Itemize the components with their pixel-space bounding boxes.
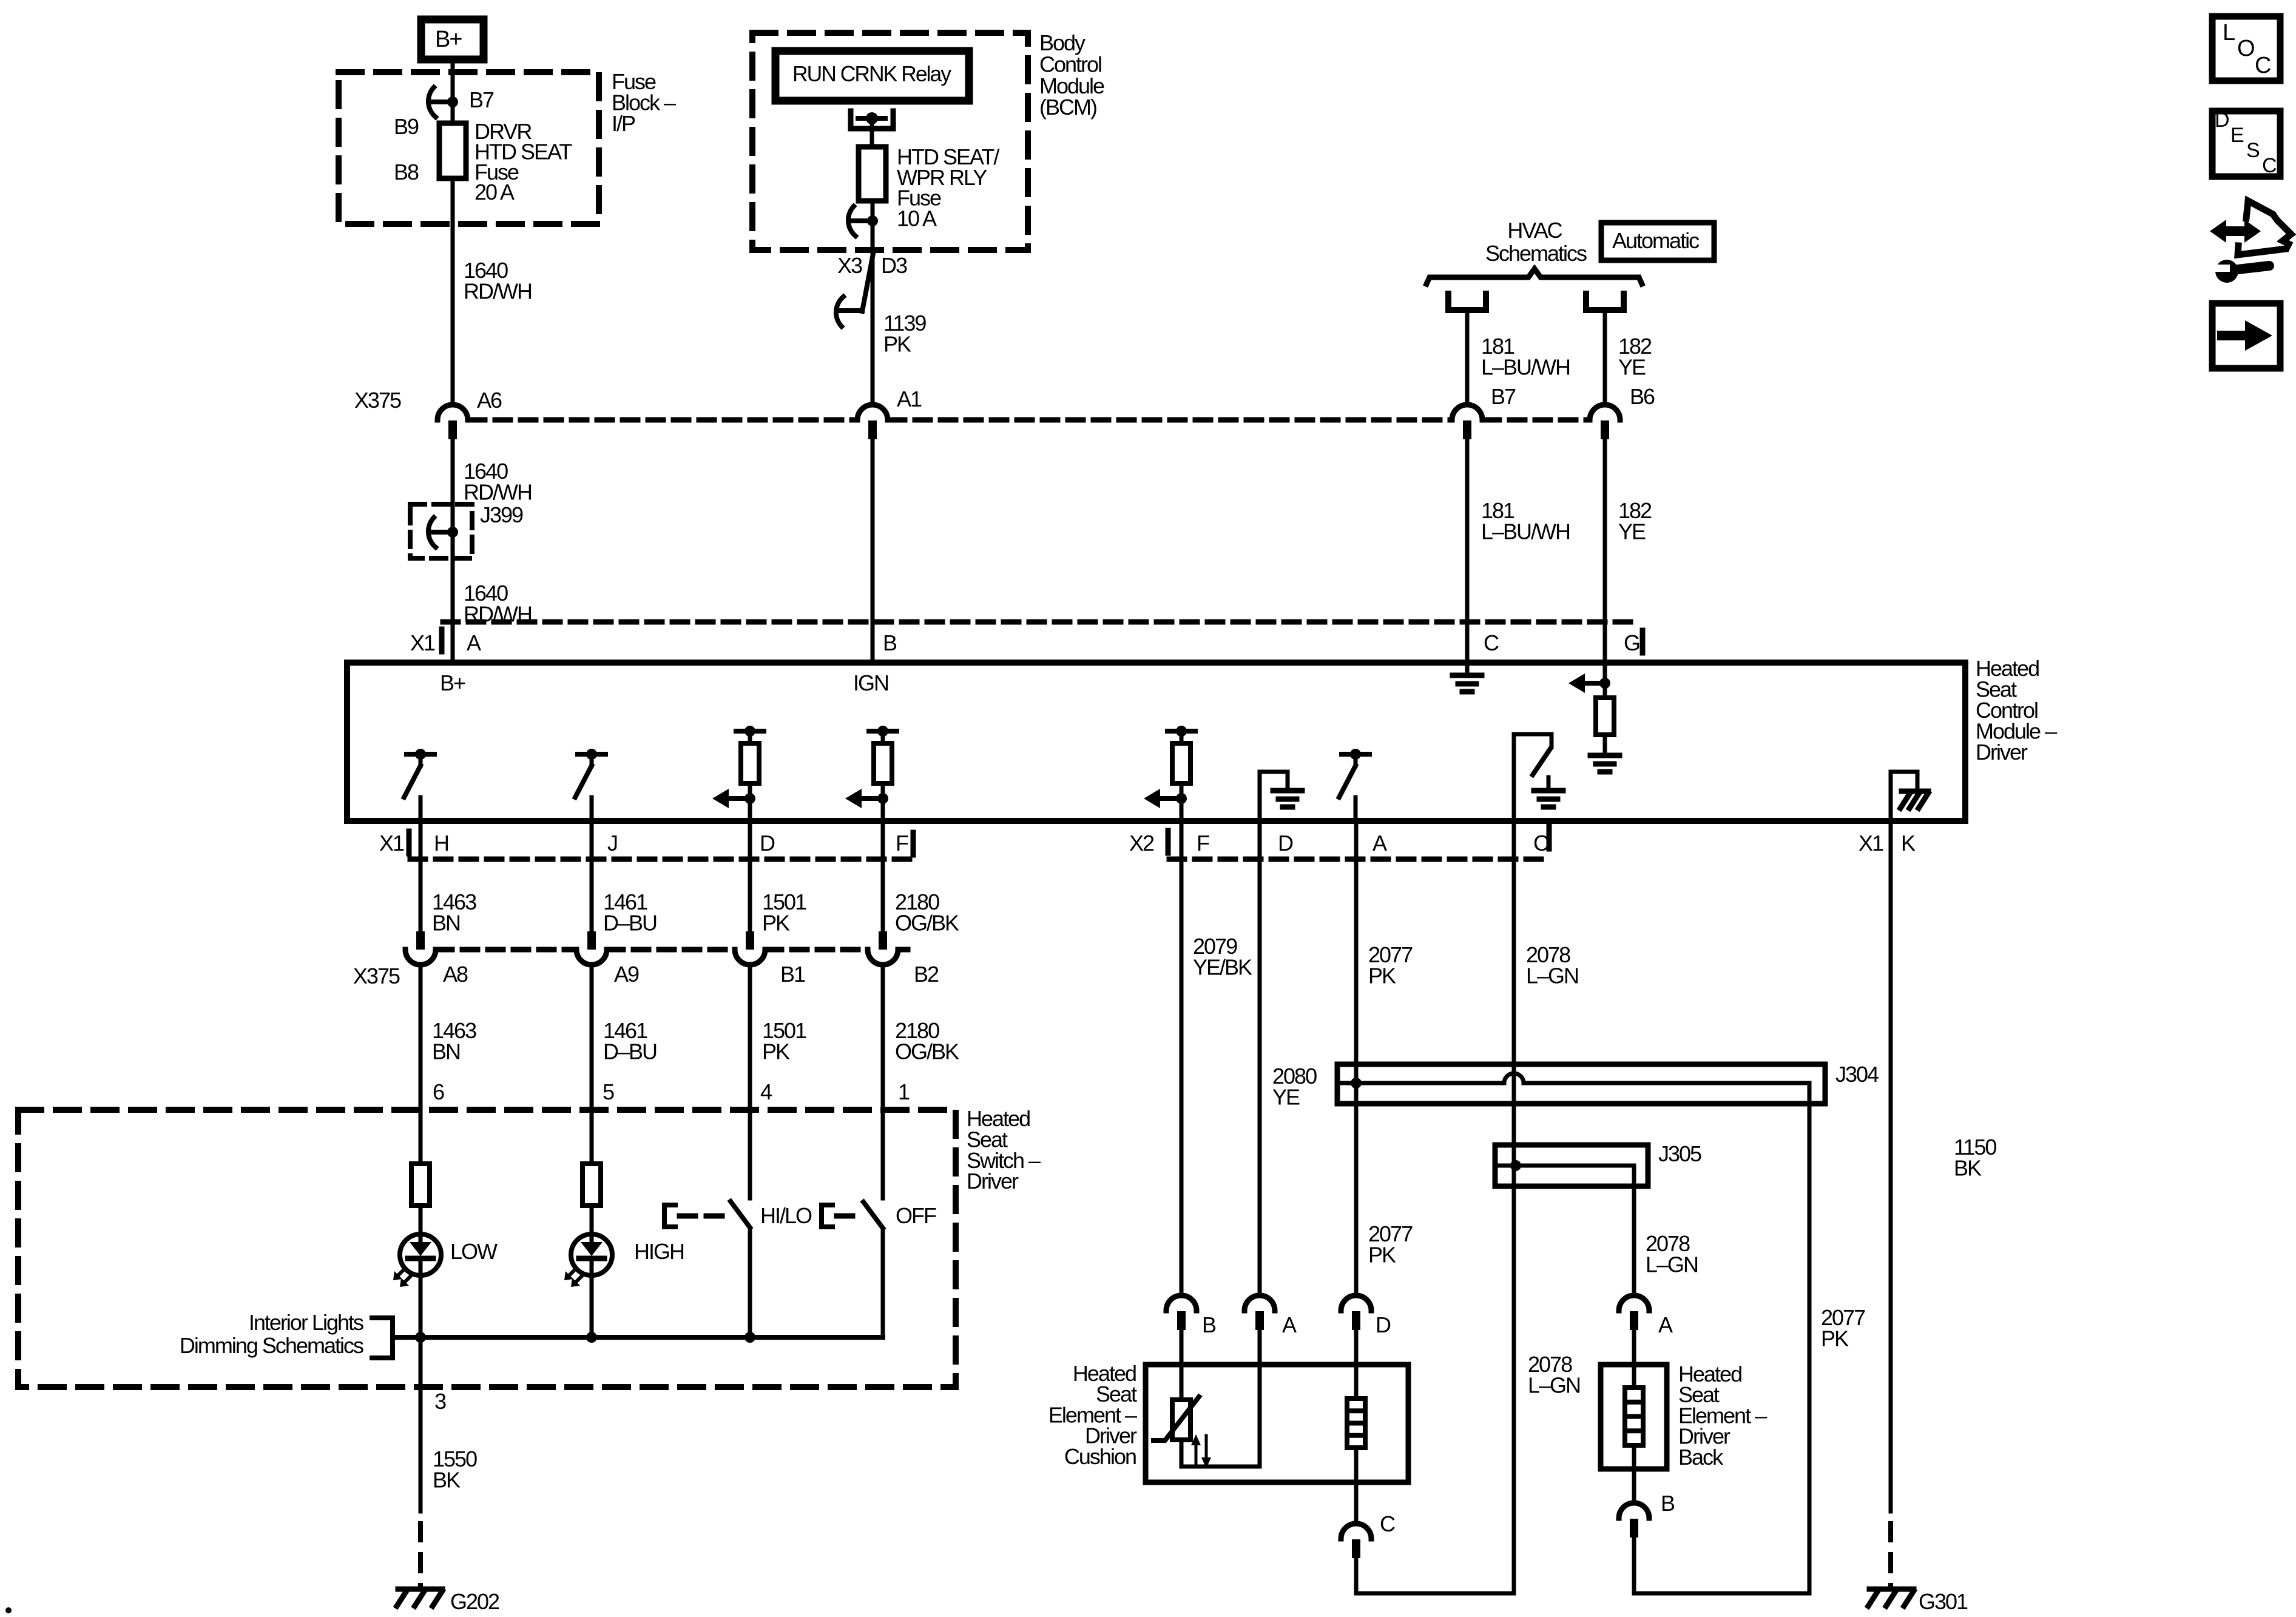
wire 1139 PK fuse to X3: [871, 201, 875, 405]
svg-text:F: F: [1197, 831, 1209, 856]
splice pack J304 box: [1337, 1064, 1825, 1104]
wire 1463 BN (H to A8): [419, 821, 423, 934]
connector X3/D3 blade: [862, 254, 873, 311]
Heated Seat Switch dashed box: [18, 1110, 956, 1387]
svg-text:B8: B8: [394, 160, 419, 184]
Heated Seat Control Module box: [347, 663, 1965, 821]
relay socket bracket: [851, 111, 893, 129]
svg-text:X1: X1: [379, 831, 404, 856]
svg-text:Interior Lights: Interior Lights: [249, 1310, 363, 1335]
svg-text:X2: X2: [1129, 831, 1154, 856]
wire 2078 L-GN (X2-C down): [1512, 821, 1516, 1593]
icon adjustable hand with wrench: [2224, 226, 2246, 236]
svg-text:O: O: [2237, 36, 2254, 61]
switch resistor (LOW): [411, 1164, 430, 1206]
svg-text:A: A: [1282, 1312, 1297, 1337]
LED indicator HIGH: [571, 1234, 612, 1275]
wire A into cushion element: [1258, 1329, 1262, 1467]
svg-text:L–BU/WH: L–BU/WH: [1481, 354, 1570, 379]
svg-text:A: A: [1373, 831, 1387, 856]
svg-text:B1: B1: [780, 962, 805, 987]
heating element (back): [1625, 1388, 1643, 1445]
connector X375 terminal B2: [879, 931, 887, 950]
svg-text:BN: BN: [432, 1039, 460, 1064]
svg-text:L: L: [2223, 20, 2235, 46]
svg-text:B+: B+: [440, 670, 465, 695]
svg-text:PK: PK: [1368, 963, 1396, 988]
connector terminal C (cushion): [1341, 1524, 1371, 1539]
wire 2079 YE/BK (X2-F down): [1180, 821, 1184, 1296]
Heated Seat Element Driver Cushion box: [1146, 1365, 1408, 1482]
ground G301: [1869, 1587, 1914, 1592]
connector X1 bottom end tick: [911, 832, 916, 841]
heating element (cushion): [1347, 1399, 1365, 1448]
module switch X2-A: [1342, 752, 1369, 757]
svg-text:E: E: [2230, 124, 2244, 147]
dashed wire to G301: [1888, 1524, 1893, 1586]
switch OFF blade: [863, 1202, 883, 1228]
connector X375 terminal B7: [1452, 405, 1482, 420]
wire 1501 PK (D to B1): [748, 821, 752, 934]
svg-text:PK: PK: [762, 1039, 790, 1064]
svg-text:J: J: [607, 831, 617, 856]
svg-text:D3: D3: [881, 253, 907, 278]
svg-text:X1: X1: [410, 630, 435, 655]
svg-text:J305: J305: [1658, 1141, 1701, 1166]
splice J305 internal wire: [1498, 1164, 1634, 1168]
svg-text:RD/WH: RD/WH: [464, 279, 532, 303]
svg-text:YE: YE: [1272, 1084, 1300, 1109]
svg-text:L–GN: L–GN: [1646, 1252, 1698, 1277]
svg-text:RD/WH: RD/WH: [464, 479, 532, 504]
module output driver D: [736, 729, 764, 734]
module internal ground K: [1889, 772, 1893, 821]
svg-text:OFF: OFF: [896, 1203, 936, 1228]
svg-text:5: 5: [603, 1079, 614, 1104]
svg-text:A: A: [467, 630, 481, 655]
svg-text:Back: Back: [1678, 1445, 1724, 1470]
svg-text:YE: YE: [1618, 354, 1646, 379]
wire 182 YE to module pin G: [1603, 439, 1607, 663]
svg-text:D–BU: D–BU: [603, 1039, 657, 1064]
thermistor trim arrows: [1195, 1443, 1198, 1467]
svg-text:YE/BK: YE/BK: [1193, 954, 1252, 979]
wire 181 L-BU/WH to module pin C: [1465, 439, 1470, 663]
switch HI/LO linkage bracket: [662, 1205, 667, 1227]
Heated Seat Element Driver Back box: [1601, 1365, 1667, 1469]
wire X2-D down: [1258, 821, 1262, 1296]
svg-text:B+: B+: [435, 27, 462, 52]
connector X1 separator tick: [439, 629, 445, 638]
wire 1640 RD/WH fuse to X375 A6: [451, 178, 455, 405]
svg-text:YE: YE: [1618, 519, 1646, 544]
interior lights bracket: [390, 1318, 395, 1358]
wire 1139 PK A1 to module pin B: [871, 439, 875, 663]
connector X375 terminal A6: [437, 405, 468, 420]
splice pack J305 box: [1495, 1145, 1648, 1186]
svg-text:J304: J304: [1835, 1062, 1879, 1087]
switch resistor (HIGH): [582, 1164, 601, 1206]
module driver output at pin G: [1603, 663, 1607, 683]
svg-text:PK: PK: [762, 910, 790, 935]
connector X2 dashed line (module bottom): [1169, 857, 1549, 862]
svg-text:HI/LO: HI/LO: [760, 1203, 812, 1228]
svg-text:G202: G202: [450, 1589, 499, 1614]
svg-text:B: B: [1661, 1491, 1675, 1516]
svg-text:Dimming Schematics: Dimming Schematics: [180, 1333, 363, 1358]
connector X375 terminal B1: [746, 931, 754, 950]
fuse block dashed box: [339, 72, 599, 224]
switch OFF linkage bracket: [819, 1205, 824, 1227]
power symbol B+ battery feed: [421, 19, 484, 59]
svg-text:B7: B7: [1491, 384, 1516, 409]
HVAC brace: [1427, 269, 1642, 284]
connector X375 dashed line: [470, 417, 856, 423]
wire B+ feed into fuse block: [451, 63, 455, 123]
svg-text:6: 6: [433, 1079, 444, 1104]
svg-text:D: D: [2215, 109, 2229, 132]
svg-text:B7: B7: [469, 87, 494, 112]
svg-text:Schematics: Schematics: [1485, 241, 1587, 266]
wire 2180 OG/BK (B2 to switch): [881, 965, 885, 1198]
svg-text:BN: BN: [432, 910, 460, 935]
splice clip B7 in fuse block: [447, 96, 458, 107]
svg-text:Driver: Driver: [1976, 740, 2028, 765]
svg-text:C: C: [1484, 630, 1499, 655]
icon next-page arrow box: [2212, 303, 2280, 368]
svg-text:BK: BK: [1954, 1155, 1982, 1180]
connector terminal A (cushion): [1244, 1295, 1275, 1311]
wire pin 3 down: [419, 1337, 423, 1511]
connector X1 dashed line (module top): [443, 619, 1639, 625]
wire 2077 PK (X2-A down): [1354, 821, 1359, 1296]
splice J399 dashed box: [410, 504, 472, 558]
icon LOC box: [2212, 16, 2280, 81]
connector terminal B (back): [1619, 1503, 1649, 1518]
svg-text:B2: B2: [914, 962, 939, 987]
module internal ground at pin C: [1465, 663, 1470, 675]
wire 181 L-BU/WH to B7: [1465, 311, 1470, 405]
svg-text:C: C: [2262, 154, 2277, 177]
svg-text:Automatic: Automatic: [1612, 228, 1700, 253]
svg-text:4: 4: [760, 1079, 772, 1104]
wire 1150 BK (K down): [1889, 821, 1893, 1511]
connector terminal B (cushion): [1166, 1295, 1197, 1311]
svg-text:I/P: I/P: [612, 111, 635, 136]
svg-text:1: 1: [898, 1079, 910, 1104]
svg-text:OG/BK: OG/BK: [895, 910, 959, 935]
interior lights dimming bus: [393, 1335, 883, 1340]
svg-text:A9: A9: [614, 962, 639, 987]
connector X375 dashed line (row 2): [437, 947, 575, 953]
wire A into back element: [1632, 1329, 1636, 1388]
svg-text:PK: PK: [1368, 1242, 1396, 1267]
thermistor (cushion): [1172, 1400, 1190, 1440]
splice J304 internal wire: [1340, 1081, 1504, 1085]
connector X375 terminal A1: [857, 405, 888, 420]
BCM dashed box: [752, 33, 1028, 250]
wire 1640 RD/WH A6 to module pin A: [451, 439, 455, 663]
switch HI/LO blade: [731, 1201, 750, 1227]
svg-text:D: D: [1376, 1312, 1391, 1337]
svg-text:D: D: [1278, 831, 1293, 856]
connector terminal D (cushion): [1341, 1295, 1371, 1311]
svg-text:X375: X375: [354, 388, 401, 413]
module output driver X2-F: [1167, 729, 1195, 734]
svg-text:IGN: IGN: [853, 670, 888, 695]
svg-text:J399: J399: [480, 502, 523, 527]
svg-text:3: 3: [434, 1389, 446, 1414]
svg-text:C: C: [1380, 1511, 1395, 1536]
wire 1501 PK (B1 to switch): [748, 965, 752, 1198]
wire 1461 D-BU (A9 to switch): [590, 965, 594, 1164]
svg-text:B: B: [1202, 1312, 1216, 1337]
svg-text:S: S: [2246, 139, 2260, 162]
svg-text:HVAC: HVAC: [1507, 218, 1562, 243]
svg-text:F: F: [896, 831, 908, 856]
svg-text:A1: A1: [897, 387, 922, 411]
connector X2 end tick: [1547, 826, 1552, 835]
wire 1461 D-BU (J to A9): [590, 821, 594, 934]
relay output clip: [867, 215, 878, 226]
dashed wire to G202: [418, 1524, 423, 1586]
ground G202: [398, 1587, 442, 1592]
module switch-to-ground X2-C: [1512, 734, 1516, 821]
connector X1 end tick: [1640, 630, 1646, 639]
wire 1463 BN (A8 to switch): [419, 965, 423, 1164]
connector X375 terminal A8: [416, 931, 425, 950]
connector X375 terminal A9: [587, 931, 596, 950]
wire 182 YE to B6: [1603, 311, 1607, 405]
connector X1 bottom separator tick: [407, 831, 412, 840]
svg-text:X3: X3: [837, 253, 862, 278]
svg-text:X1: X1: [1859, 831, 1883, 856]
connector X1 dashed line (module bottom): [410, 857, 911, 862]
svg-text:B6: B6: [1630, 384, 1655, 409]
wire C to 2078 L-GN: [1354, 1558, 1359, 1593]
fuse DRVR HTD SEAT 20A: [439, 123, 466, 178]
svg-text:OG/BK: OG/BK: [895, 1039, 959, 1064]
svg-text:PK: PK: [1821, 1326, 1849, 1351]
svg-text:(BCM): (BCM): [1039, 95, 1096, 120]
connector terminal A (back): [1619, 1295, 1649, 1311]
HVAC output terminal right: [1586, 294, 1624, 310]
wire D into cushion element: [1354, 1329, 1359, 1399]
svg-text:G: G: [1624, 630, 1639, 655]
connector X2 separator tick: [1166, 831, 1171, 839]
wire B to 2077 PK: [1632, 1537, 1636, 1593]
svg-text:D–BU: D–BU: [603, 910, 657, 935]
svg-text:C: C: [2255, 53, 2271, 78]
svg-text:Cushion: Cushion: [1064, 1444, 1136, 1469]
svg-text:K: K: [1901, 831, 1916, 856]
module switch J: [578, 752, 606, 757]
splice J399 clip: [447, 527, 458, 538]
svg-text:10 A: 10 A: [897, 206, 937, 231]
svg-text:D: D: [760, 831, 775, 856]
svg-text:A: A: [1658, 1312, 1673, 1337]
svg-text:G301: G301: [1919, 1589, 1968, 1614]
svg-text:20 A: 20 A: [474, 180, 515, 204]
box Automatic: [1601, 223, 1714, 260]
svg-text:LOW: LOW: [450, 1239, 498, 1264]
svg-text:Driver: Driver: [967, 1169, 1019, 1193]
svg-text:L–GN: L–GN: [1528, 1372, 1580, 1397]
svg-text:X375: X375: [353, 964, 400, 988]
wire 2180 OG/BK (F to B2): [881, 821, 885, 934]
svg-text:HIGH: HIGH: [634, 1239, 684, 1264]
svg-text:C: C: [1533, 831, 1548, 856]
svg-text:B: B: [883, 630, 897, 655]
svg-text:L–GN: L–GN: [1526, 963, 1578, 988]
stray page dot: [5, 1607, 12, 1613]
wire thermistor to A: [1180, 1440, 1184, 1467]
svg-text:RUN CRNK Relay: RUN CRNK Relay: [792, 61, 951, 86]
module internal ground X2-D: [1258, 772, 1262, 821]
svg-text:A6: A6: [477, 388, 502, 413]
relay RUN CRNK Relay box: [775, 51, 969, 101]
module switch H: [407, 752, 434, 757]
connector X375 terminal B6: [1590, 405, 1620, 420]
HVAC output terminal left: [1448, 294, 1486, 310]
module output driver F: [869, 729, 897, 734]
svg-text:PK: PK: [883, 331, 911, 356]
svg-text:L–BU/WH: L–BU/WH: [1481, 519, 1570, 544]
svg-text:BK: BK: [433, 1467, 461, 1492]
fuse HTD SEAT/WPR RLY 10A: [859, 147, 886, 201]
LED indicator LOW: [400, 1234, 441, 1275]
icon DESC box: [2212, 111, 2280, 177]
wire back element to B: [1632, 1445, 1636, 1503]
wire B into cushion element: [1180, 1329, 1184, 1400]
svg-text:B9: B9: [394, 114, 419, 139]
svg-text:H: H: [434, 831, 448, 856]
svg-text:A8: A8: [443, 962, 468, 987]
